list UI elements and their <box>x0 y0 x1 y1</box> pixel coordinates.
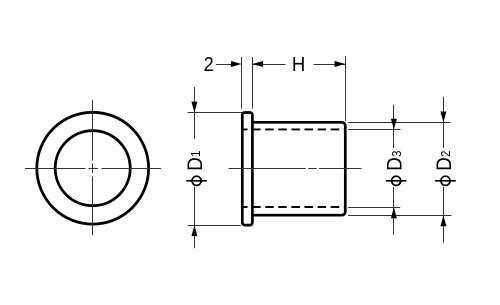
svg-text:D: D <box>384 157 407 171</box>
extension line flange right (for dims 2 and H) <box>252 57 254 109</box>
extension line flange left (for dim 2) <box>241 57 243 109</box>
svg-text:2: 2 <box>204 53 214 76</box>
dim 2 arrow <box>231 61 242 67</box>
dim H arrow left <box>252 61 263 67</box>
dim H line left <box>253 64 286 66</box>
dim phiD2 line bottom <box>443 187 445 243</box>
dim phiD3 line top <box>393 105 395 148</box>
extension line phiD1 bottom <box>188 225 241 227</box>
label H <box>292 53 305 76</box>
horizontal centerline (side view) <box>229 168 362 170</box>
extension line phiD2 bottom <box>348 215 451 217</box>
label 2 <box>204 53 214 76</box>
vertical centerline (front view) <box>92 100 94 236</box>
outer circle (front view, flange OD) <box>37 112 149 224</box>
label phiD3 <box>384 150 407 185</box>
dim phiD2 line top <box>443 97 445 148</box>
label phiD2 <box>433 150 456 185</box>
svg-text:D: D <box>433 157 456 171</box>
bore hidden line top <box>244 128 346 130</box>
dim phiD2 arrow bottom <box>440 215 446 226</box>
dim phiD1 line bottom <box>194 187 196 249</box>
dim phiD1 arrow top <box>191 102 197 113</box>
svg-text:D: D <box>184 157 207 171</box>
svg-text:2: 2 <box>438 150 453 156</box>
extension line phiD3 bottom <box>348 207 400 209</box>
dim phiD3 arrow bottom <box>391 207 397 218</box>
dim phiD3 arrow top <box>391 119 397 130</box>
extension line body right (for dim H) <box>345 56 347 121</box>
svg-text:1: 1 <box>188 150 203 156</box>
dim phiD1 arrow bottom <box>191 225 197 236</box>
svg-text:3: 3 <box>389 150 404 156</box>
dim 2 leader line <box>216 64 237 66</box>
dim phiD1 line top <box>194 87 196 139</box>
dim phiD2 arrow top <box>440 112 446 123</box>
extension line phiD2 top <box>348 122 450 124</box>
bore hidden line bottom <box>244 206 346 208</box>
flange (side view) <box>242 113 252 226</box>
horizontal centerline (front view) <box>25 168 161 170</box>
extension line phiD1 top <box>188 112 243 114</box>
inner circle (front view, bore) <box>55 131 130 206</box>
dim H line right <box>314 64 346 66</box>
body outline (side view) <box>252 122 345 215</box>
dim H arrow right <box>335 61 346 67</box>
dim phiD3 line bottom <box>393 187 395 235</box>
label phiD1 <box>184 150 207 185</box>
svg-text:H: H <box>292 53 305 76</box>
extension line phiD3 top <box>348 129 400 131</box>
